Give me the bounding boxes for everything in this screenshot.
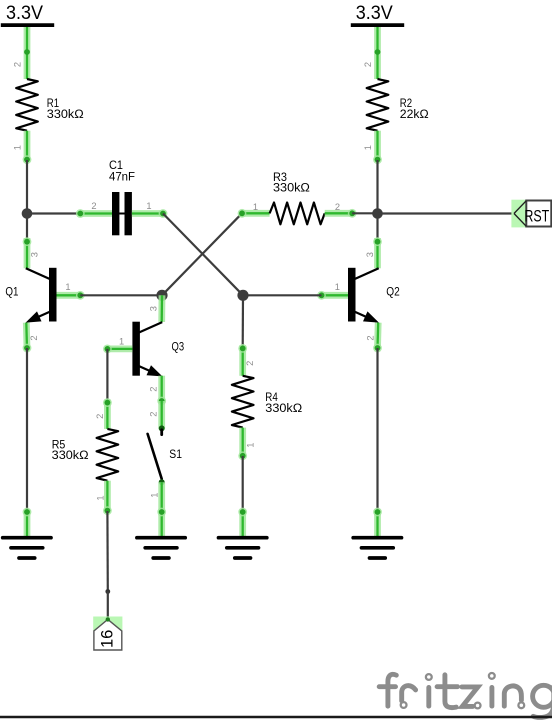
wire node D down to Q2 collector: [376, 214, 378, 241]
node B junction dot: [156, 290, 167, 301]
label R2 22kΩ: [400, 96, 429, 121]
svg-text:2: 2: [365, 335, 375, 340]
Q1 emitter pin wire: [23, 323, 32, 353]
wire Q1 emitter to ground: [26, 348, 28, 511]
svg-text:Q3: Q3: [172, 339, 185, 353]
svg-text:2: 2: [95, 414, 105, 419]
svg-text:2: 2: [148, 387, 158, 392]
resistor R4: [232, 376, 254, 428]
ground symbol left: [3, 538, 51, 558]
svg-text:3.3V: 3.3V: [6, 3, 43, 24]
svg-text:1: 1: [150, 493, 160, 498]
wire R1 to node A: [26, 160, 28, 214]
resistor R3: [270, 203, 325, 225]
svg-text:RST: RST: [524, 207, 549, 225]
svg-text:3: 3: [149, 306, 159, 311]
capacitor C1 labels: [109, 158, 135, 184]
svg-text:2: 2: [91, 201, 96, 211]
resistor R1: [16, 79, 38, 131]
transistor Q2: [348, 268, 379, 323]
svg-text:1: 1: [12, 145, 22, 150]
svg-text:1: 1: [96, 495, 106, 500]
svg-text:330kΩ: 330kΩ: [52, 448, 89, 462]
ground symbol middle: [219, 538, 267, 558]
Q1 base pin wire: [57, 291, 85, 300]
label R1 330kΩ: [47, 96, 84, 121]
wire Q3 emitter to S1: [158, 401, 165, 428]
Q2 base pin wire: [317, 291, 348, 300]
Q3 collector pin wire: [158, 295, 165, 322]
ground pin wire right: [373, 508, 382, 537]
frame bottom edge: [0, 716, 552, 718]
wire C1 pin1 to node C diagonal: [163, 214, 243, 296]
label R3 330kΩ: [273, 170, 310, 195]
svg-text:2: 2: [335, 202, 340, 212]
net label RST: [511, 200, 551, 228]
wire R2 to node D: [376, 160, 378, 214]
capacitor C1 plates: [112, 192, 132, 235]
svg-text:2: 2: [12, 62, 22, 67]
label R4 330kΩ: [265, 390, 302, 415]
svg-text:2: 2: [245, 361, 255, 366]
wire R3 pin2 to node D: [352, 212, 377, 214]
transistor Q1: [26, 268, 57, 323]
resistor R5: [97, 429, 119, 481]
switch S1: [148, 425, 165, 485]
svg-text:16: 16: [99, 630, 117, 648]
R2 pin1 wire: [373, 131, 382, 164]
transistor Q3: [132, 322, 162, 377]
C1 pin2 wire: [76, 209, 112, 218]
power +3.3V rail left: [1, 3, 54, 25]
svg-text:2: 2: [363, 62, 373, 67]
capacitor C1 gap pin line: [118, 213, 126, 215]
Q2 collector pin wire: [373, 237, 382, 268]
svg-text:3: 3: [30, 252, 40, 257]
connector pin 16: [93, 617, 122, 651]
svg-text:1: 1: [246, 443, 256, 448]
R3 pin2 wire: [325, 209, 357, 218]
R4 pin1 wire: [238, 428, 247, 461]
wire Q2 emitter to ground: [376, 348, 378, 511]
svg-text:1: 1: [146, 201, 151, 211]
ground symbol right: [353, 538, 401, 558]
wire bendpoint: [105, 589, 110, 594]
R1 pin1 wire: [23, 131, 32, 164]
ground symbol middle-left: [137, 538, 185, 558]
fritzing logo: [379, 674, 552, 717]
wire node A to C1 pin2: [27, 212, 80, 214]
node C junction dot: [237, 290, 248, 301]
wire node C to Q2 base: [243, 294, 322, 296]
svg-text:1: 1: [65, 282, 70, 292]
label R5 330kΩ: [52, 437, 89, 462]
node D junction dot: [372, 208, 383, 219]
svg-text:3.3V: 3.3V: [356, 3, 393, 24]
svg-text:Q2: Q2: [386, 284, 400, 298]
svg-text:2: 2: [149, 412, 159, 417]
wire 3.3V to R1 pin2: [24, 27, 30, 79]
svg-text:Q1: Q1: [5, 284, 18, 298]
Q3 emitter pin wire: [157, 376, 166, 406]
wire 3.3V to R2 pin2: [375, 27, 381, 79]
ground pin wire left: [23, 508, 32, 537]
svg-text:3: 3: [365, 252, 375, 257]
svg-text:47nF: 47nF: [109, 169, 135, 183]
Q3 base pin wire: [103, 345, 132, 354]
R3 pin1 wire: [238, 209, 270, 218]
wire node A down to Q1 collector: [26, 214, 28, 241]
svg-text:22kΩ: 22kΩ: [400, 107, 429, 121]
wire Q3 base down to R5: [106, 349, 108, 401]
svg-text:1: 1: [119, 337, 124, 347]
wire R3 pin1 to node B diagonal: [162, 213, 242, 295]
svg-text:1: 1: [253, 202, 258, 212]
wire bendpoint to pin 16: [107, 592, 109, 620]
svg-text:2: 2: [29, 335, 39, 340]
node A junction dot: [22, 208, 33, 219]
R5 pin1 wire: [103, 481, 112, 515]
ground pin wire middle: [238, 508, 247, 537]
wire R5 to connector J1: [106, 511, 109, 592]
wire R4 top from node C: [242, 295, 245, 348]
Q2 emitter pin wire: [373, 323, 382, 353]
svg-text:330kΩ: 330kΩ: [265, 401, 302, 415]
S1 pin1 wire to ground: [157, 482, 166, 537]
svg-text:1: 1: [335, 282, 340, 292]
svg-text:1: 1: [363, 145, 373, 150]
R4 pin2 wire: [238, 344, 247, 376]
svg-text:330kΩ: 330kΩ: [273, 181, 310, 195]
R5 pin2 wire: [103, 398, 112, 429]
Q1 collector pin wire: [23, 237, 32, 268]
svg-text:330kΩ: 330kΩ: [47, 107, 84, 121]
svg-text:S1: S1: [169, 447, 182, 461]
wire R4 to ground: [242, 456, 244, 511]
power +3.3V rail right: [351, 3, 404, 25]
wire Q1 base to node B: [80, 294, 162, 296]
fritzing logo pad donuts: [401, 673, 524, 708]
resistor R2: [367, 79, 389, 131]
C1 pin1 wire: [132, 209, 168, 218]
wire node D to RST: [378, 212, 515, 214]
